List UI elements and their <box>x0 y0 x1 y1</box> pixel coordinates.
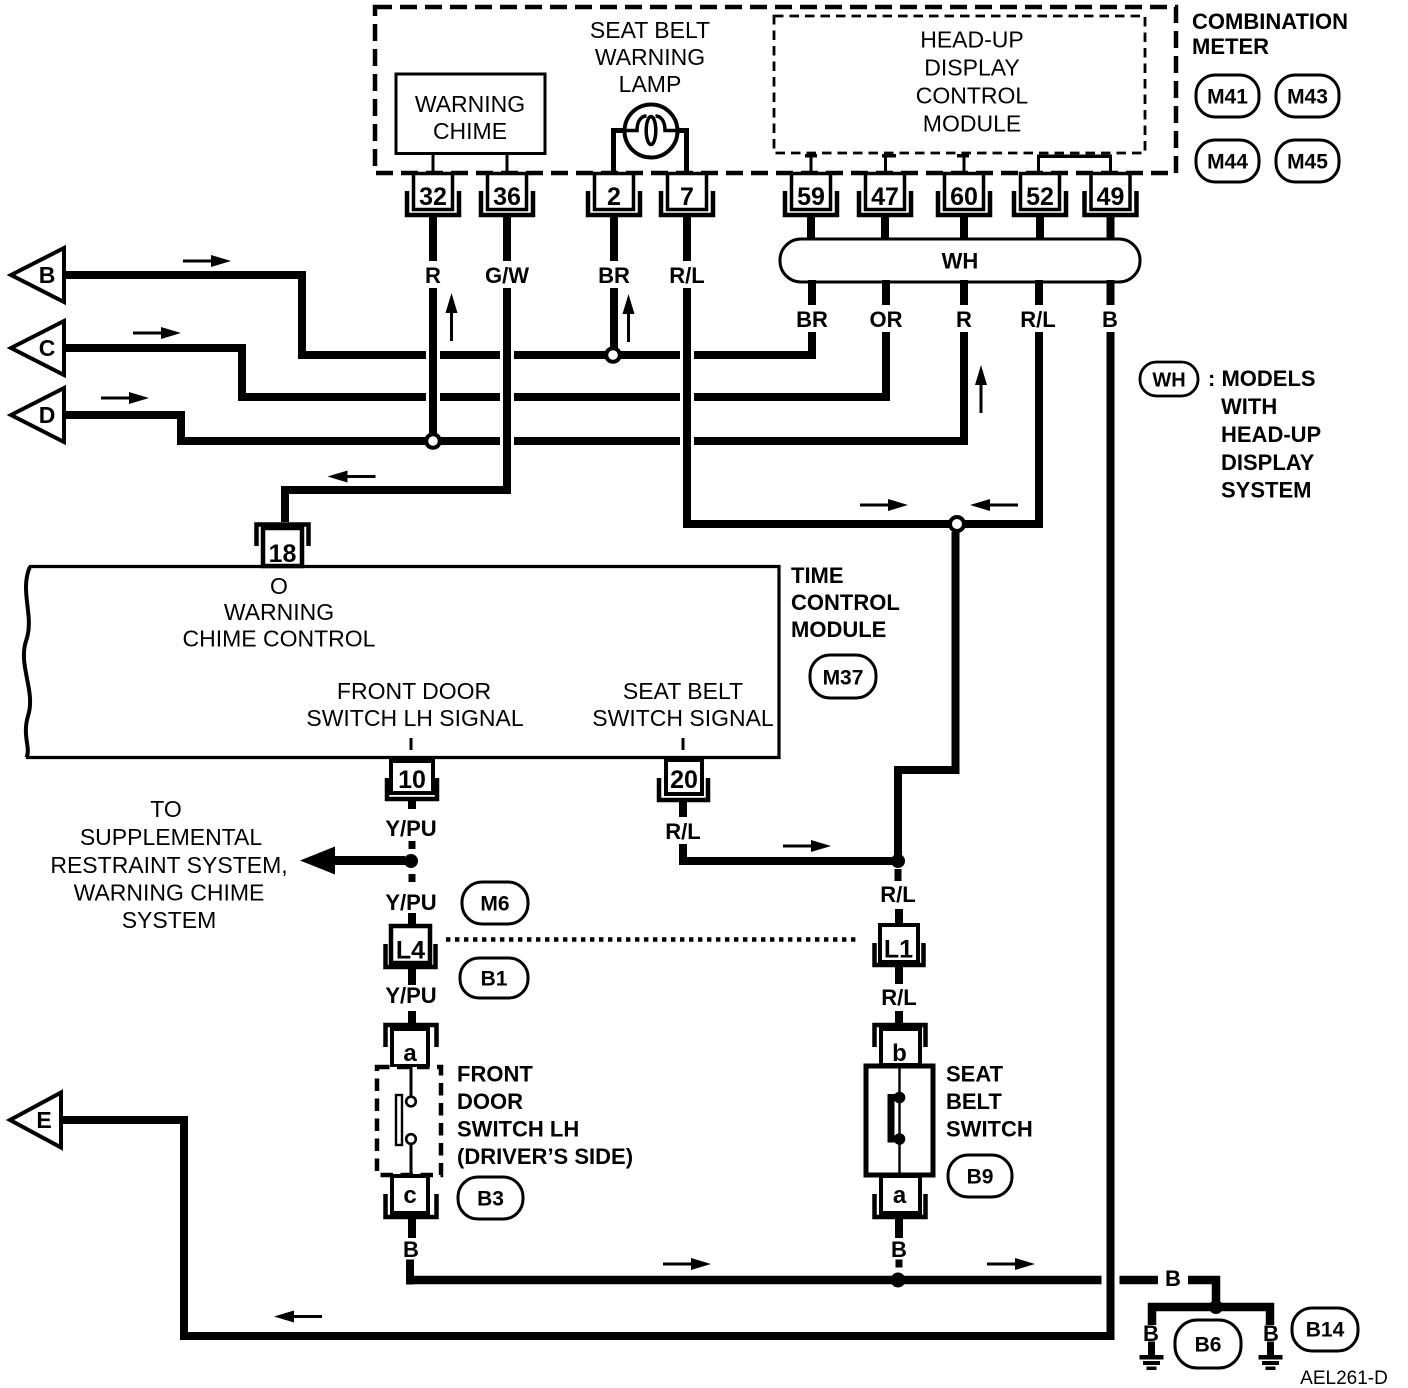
svg-text:MODULE: MODULE <box>791 617 886 642</box>
svg-text:CONTROL: CONTROL <box>791 590 900 615</box>
svg-text:Y/PU: Y/PU <box>385 890 436 915</box>
svg-text:WARNING: WARNING <box>224 599 334 625</box>
svg-text:BR: BR <box>796 307 828 332</box>
svg-text:B1: B1 <box>481 968 508 991</box>
svg-text:M41: M41 <box>1207 86 1248 109</box>
svg-text:B14: B14 <box>1306 1319 1345 1342</box>
svg-text:10: 10 <box>398 766 426 794</box>
svg-text:MODULE: MODULE <box>923 111 1021 137</box>
svg-text:WARNING: WARNING <box>595 44 705 70</box>
svg-text:SWITCH LH SIGNAL: SWITCH LH SIGNAL <box>306 705 523 731</box>
svg-text:B: B <box>39 262 56 288</box>
svg-text:B: B <box>1102 307 1118 332</box>
svg-text:WITH: WITH <box>1221 394 1277 419</box>
svg-text:60: 60 <box>950 183 978 211</box>
svg-text:SWITCH LH: SWITCH LH <box>457 1117 579 1142</box>
svg-text:R/L: R/L <box>880 882 915 907</box>
svg-text:c: c <box>403 1182 416 1209</box>
svg-text:HEAD-UP: HEAD-UP <box>1221 422 1321 447</box>
svg-text:SWITCH SIGNAL: SWITCH SIGNAL <box>592 705 774 731</box>
svg-text:R/L: R/L <box>665 819 700 844</box>
svg-text:R/L: R/L <box>1020 307 1055 332</box>
svg-text:R: R <box>425 263 441 288</box>
svg-text:METER: METER <box>1192 34 1269 59</box>
svg-text:M43: M43 <box>1287 86 1328 109</box>
svg-text:B: B <box>1165 1266 1181 1291</box>
svg-text:WARNING: WARNING <box>415 91 525 117</box>
svg-text:DOOR: DOOR <box>457 1089 523 1114</box>
svg-text:a: a <box>893 1182 907 1209</box>
svg-text:Y/PU: Y/PU <box>385 816 436 841</box>
svg-text:M37: M37 <box>823 667 864 690</box>
svg-text:D: D <box>39 402 56 428</box>
svg-text:FRONT: FRONT <box>457 1062 533 1087</box>
svg-text:CHIME CONTROL: CHIME CONTROL <box>183 626 376 652</box>
svg-text:HEAD-UP: HEAD-UP <box>920 27 1024 53</box>
svg-text:CHIME: CHIME <box>433 118 507 144</box>
svg-text:36: 36 <box>493 183 521 211</box>
svg-text:COMBINATION: COMBINATION <box>1192 9 1348 34</box>
svg-text:C: C <box>39 335 56 361</box>
svg-text:WH: WH <box>942 249 979 274</box>
svg-text:18: 18 <box>269 540 297 568</box>
svg-text:59: 59 <box>797 183 825 211</box>
svg-text:B: B <box>891 1237 907 1262</box>
svg-text:R/L: R/L <box>881 985 916 1010</box>
svg-text:SEAT: SEAT <box>946 1062 1004 1087</box>
svg-text:L4: L4 <box>396 937 425 965</box>
svg-text:L1: L1 <box>884 936 913 964</box>
svg-text:20: 20 <box>670 766 698 794</box>
svg-text:M6: M6 <box>480 893 509 916</box>
svg-text:O: O <box>270 573 288 599</box>
svg-text:FRONT DOOR: FRONT DOOR <box>337 678 491 704</box>
svg-text:M45: M45 <box>1287 151 1328 174</box>
svg-text:SWITCH: SWITCH <box>946 1117 1033 1142</box>
svg-text:47: 47 <box>871 183 899 211</box>
svg-text:BR: BR <box>598 263 630 288</box>
svg-text:TO: TO <box>150 796 182 822</box>
svg-text:2: 2 <box>607 183 621 211</box>
svg-text:B6: B6 <box>1195 1334 1222 1357</box>
svg-text:SEAT BELT: SEAT BELT <box>623 678 743 704</box>
svg-text:SEAT BELT: SEAT BELT <box>590 17 710 43</box>
svg-text:AEL261-D: AEL261-D <box>1300 1368 1388 1388</box>
svg-text:CONTROL: CONTROL <box>916 83 1029 109</box>
svg-text:WH: WH <box>1152 370 1185 392</box>
svg-text:BELT: BELT <box>946 1089 1002 1114</box>
svg-text:: MODELS: : MODELS <box>1208 366 1316 391</box>
svg-text:SYSTEM: SYSTEM <box>122 907 217 933</box>
svg-text:49: 49 <box>1097 183 1125 211</box>
svg-text:WARNING CHIME: WARNING CHIME <box>74 880 265 906</box>
svg-text:B3: B3 <box>477 1188 504 1211</box>
svg-text:Y/PU: Y/PU <box>385 983 436 1008</box>
svg-text:OR: OR <box>870 307 903 332</box>
svg-text:B9: B9 <box>967 1166 994 1189</box>
svg-text:b: b <box>892 1040 907 1067</box>
svg-text:R: R <box>956 307 972 332</box>
svg-text:DISPLAY: DISPLAY <box>1221 450 1315 475</box>
svg-text:a: a <box>403 1040 417 1067</box>
svg-text:DISPLAY: DISPLAY <box>924 55 1019 81</box>
svg-text:32: 32 <box>419 183 447 211</box>
svg-text:B: B <box>403 1237 419 1262</box>
svg-text:R/L: R/L <box>669 263 704 288</box>
svg-text:G/W: G/W <box>485 263 529 288</box>
svg-text:SYSTEM: SYSTEM <box>1221 478 1311 503</box>
svg-text:SUPPLEMENTAL: SUPPLEMENTAL <box>80 824 263 850</box>
svg-text:RESTRAINT SYSTEM,: RESTRAINT SYSTEM, <box>50 852 287 878</box>
svg-text:E: E <box>36 1107 51 1133</box>
svg-text:TIME: TIME <box>791 563 844 588</box>
svg-text:M44: M44 <box>1207 151 1248 174</box>
svg-text:LAMP: LAMP <box>619 71 682 97</box>
svg-text:52: 52 <box>1026 183 1054 211</box>
svg-text:7: 7 <box>680 183 694 211</box>
svg-text:(DRIVER’S SIDE): (DRIVER’S SIDE) <box>457 1144 633 1169</box>
